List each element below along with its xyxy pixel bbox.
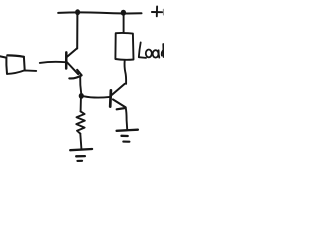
wire: Q2 emitter to ground bbox=[126, 108, 128, 130]
wire: rail to Q1 collector bbox=[76, 13, 78, 49]
wire: node to Q2 base bbox=[84, 96, 110, 97]
label: +V supply bbox=[152, 7, 164, 17]
input square-wave source bbox=[0, 55, 36, 74]
ground (below Q2) bbox=[117, 130, 138, 142]
junction dot: load branch on rail bbox=[121, 10, 126, 16]
node junction dot bbox=[79, 93, 84, 99]
resistor R1 bbox=[76, 99, 85, 149]
wire: rail to load resistor bbox=[123, 15, 125, 33]
transistor Q2 bbox=[110, 84, 126, 110]
label: Load bbox=[139, 42, 164, 58]
junction dot: Q1 collector on rail bbox=[75, 9, 80, 15]
wire: Q1 emitter to node bbox=[80, 77, 81, 94]
load resistor (box) bbox=[115, 33, 133, 60]
+V supply rail bbox=[58, 12, 141, 13]
transistor Q1 bbox=[66, 48, 81, 78]
wire: input to Q1 base bbox=[40, 62, 66, 63]
ground (below R1) bbox=[70, 149, 92, 161]
wire: load to Q2 collector bbox=[125, 60, 127, 84]
